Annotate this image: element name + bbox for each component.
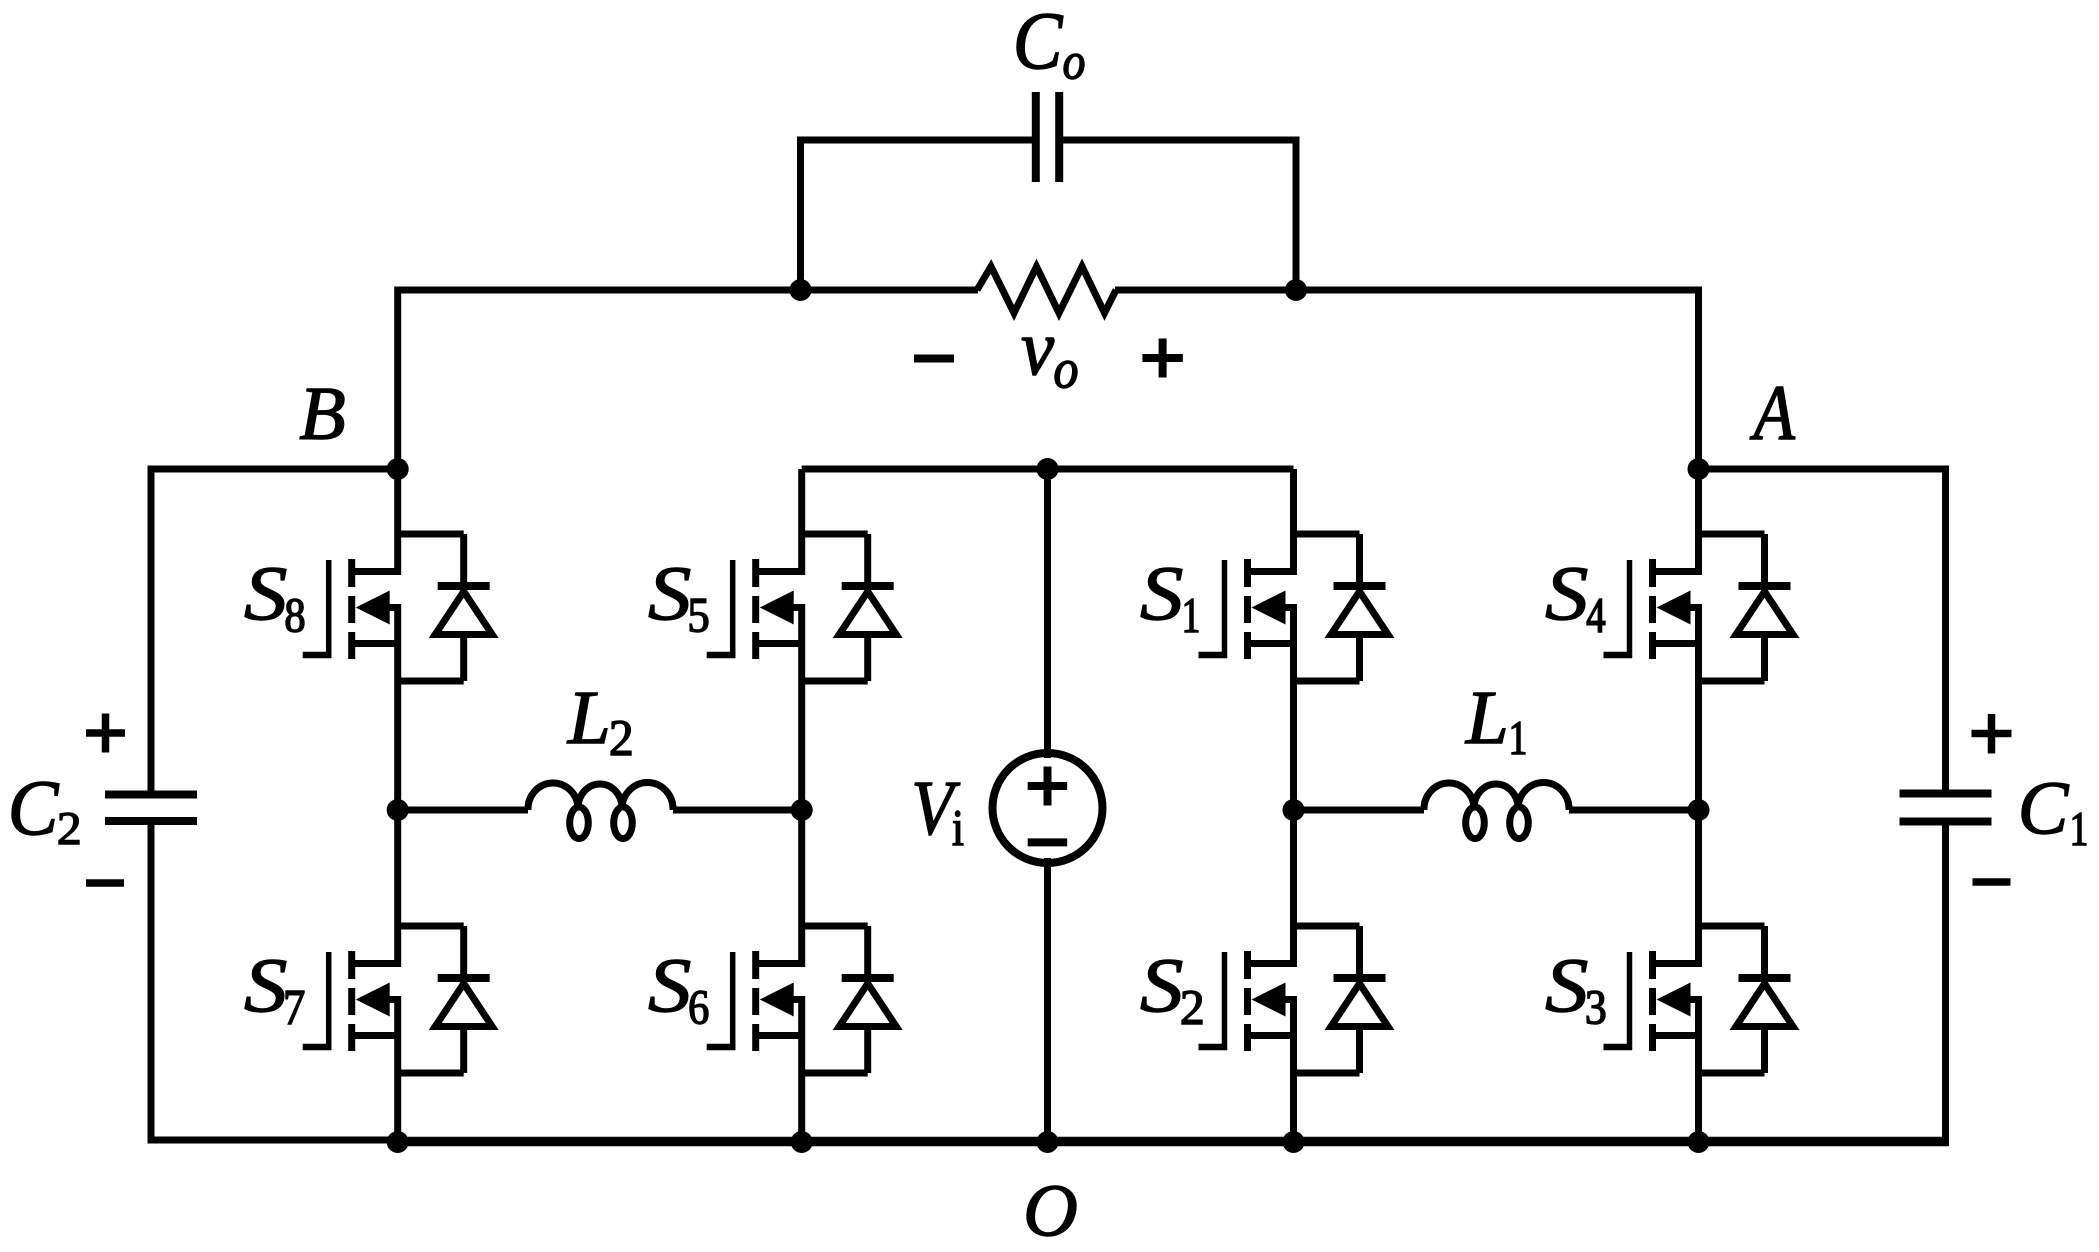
wire S1/S2 leg drain segment upper (1290, 469, 1297, 575)
wire Vi bottom lead (1044, 858, 1051, 1142)
wire S8/S7 leg source segment lower (394, 996, 401, 1142)
wire top output rail right segment (1115, 287, 1699, 294)
wire top rail left drop to node B (394, 287, 401, 470)
wire Co loop right vertical (1293, 140, 1300, 290)
wire Co loop top right segment (1062, 137, 1300, 144)
wire top output rail left segment (398, 287, 978, 294)
wire S5/S6 leg source segment lower (798, 996, 805, 1142)
capacitor C1 (1900, 794, 1992, 822)
label S1 (1141, 568, 1198, 632)
label vo plus sign (1142, 339, 1182, 378)
transistor S2 with body diode (1199, 926, 1389, 1073)
label node B (300, 389, 344, 439)
wire S5/S6 leg drain segment lower (798, 810, 805, 967)
inductor L2 (528, 782, 673, 838)
label S5 (649, 568, 708, 632)
label Co (1017, 14, 1084, 79)
wire S5/S6 leg source segment upper (798, 604, 805, 810)
wire S1/S2 leg source segment lower (1290, 996, 1297, 1142)
wire S4/S3 leg drain segment lower (1695, 810, 1702, 967)
label Vi plus (1028, 767, 1068, 806)
transistor S5 with body diode (707, 534, 897, 681)
node junction S3 leg bottom (1688, 1131, 1710, 1153)
wire C2 branch lower (148, 821, 155, 1142)
wire S1/S2 leg source segment upper (1290, 604, 1297, 810)
label L2 (567, 693, 631, 755)
transistor S3 with body diode (1604, 926, 1794, 1073)
wire L1 left lead (1294, 807, 1425, 814)
wire S4/S3 leg source segment upper (1695, 604, 1702, 810)
label C2 minus (86, 879, 124, 887)
wire S8/S7 leg drain segment upper (394, 469, 401, 575)
wire rail B left segment to C2 (148, 466, 398, 473)
node junction Co-left on output rail (790, 279, 812, 301)
inductor L1 (1424, 782, 1569, 838)
wire S4/S3 leg source segment lower (1695, 996, 1702, 1142)
wire S8/S7 leg drain segment lower (394, 810, 401, 967)
wire S4/S3 leg drain segment upper (1695, 469, 1702, 575)
node junction L2-right (791, 799, 813, 821)
wire Co loop left vertical (797, 140, 804, 290)
wire S1/S2 leg drain segment lower (1290, 810, 1297, 967)
wire top rail right drop to node A (1695, 287, 1702, 470)
wire S8/S7 leg source segment upper (394, 604, 401, 810)
wire C1 branch upper (1942, 469, 1949, 794)
wire L2 right lead (673, 807, 802, 814)
label C1 minus (1973, 878, 2011, 886)
node junction L2-left (387, 799, 409, 821)
label S4 (1546, 568, 1605, 632)
label S3 (1546, 960, 1605, 1024)
node junction Co-right on output rail (1285, 279, 1307, 301)
wire S5/S6 leg drain segment upper (798, 469, 805, 575)
transistor S6 with body diode (707, 926, 897, 1073)
wire C1 branch lower (1942, 822, 1949, 1143)
wire Vi top lead (1044, 469, 1051, 758)
wire L1 right lead (1569, 807, 1699, 814)
capacitor C2 (105, 795, 197, 822)
label Vi minus (1028, 838, 1068, 846)
node junction L1-left (1283, 799, 1305, 821)
label S7 (245, 960, 304, 1024)
wire L2 left lead (398, 807, 528, 814)
label node O (1027, 1186, 1076, 1236)
label Vi (915, 783, 963, 845)
wire C2 branch upper (148, 469, 155, 795)
node junction S2 leg bottom (1283, 1131, 1305, 1153)
wire bottom rail O left segment (148, 1137, 398, 1144)
label node A (1750, 387, 1795, 439)
transistor S7 with body diode (303, 926, 493, 1073)
wire rail A right segment to C1 (1699, 466, 1950, 473)
node junction L1-right (1688, 799, 1710, 821)
node junction S7 leg bottom (387, 1131, 409, 1153)
label S8 (245, 568, 304, 632)
transistor S4 with body diode (1604, 534, 1794, 681)
transistor S1 with body diode (1199, 534, 1389, 681)
label vo minus sign (914, 355, 954, 363)
node A (1688, 458, 1710, 480)
resistor load RL (v_o) (977, 267, 1116, 314)
node junction S6 leg bottom (791, 1131, 813, 1153)
label C1 plus (1972, 714, 2012, 754)
capacitor Co (1036, 92, 1059, 182)
wire rail center bus S5-Vi-S1 (802, 466, 1294, 473)
node B (387, 458, 409, 480)
node junction Vi top on center bus (1037, 458, 1059, 480)
label S2 (1141, 960, 1202, 1024)
voltage source Vi (993, 753, 1103, 863)
label vo (1022, 338, 1077, 388)
label L1 (1465, 693, 1525, 754)
label C2 plus (86, 714, 125, 753)
label C2 (12, 782, 79, 844)
wire bottom rail O (394, 1137, 1949, 1147)
transistor S8 with body diode (303, 534, 493, 681)
label S6 (649, 960, 708, 1024)
label C1 (2022, 783, 2086, 845)
wire Co loop top left segment (797, 137, 1033, 144)
node O junction Vi bottom (1037, 1131, 1059, 1153)
